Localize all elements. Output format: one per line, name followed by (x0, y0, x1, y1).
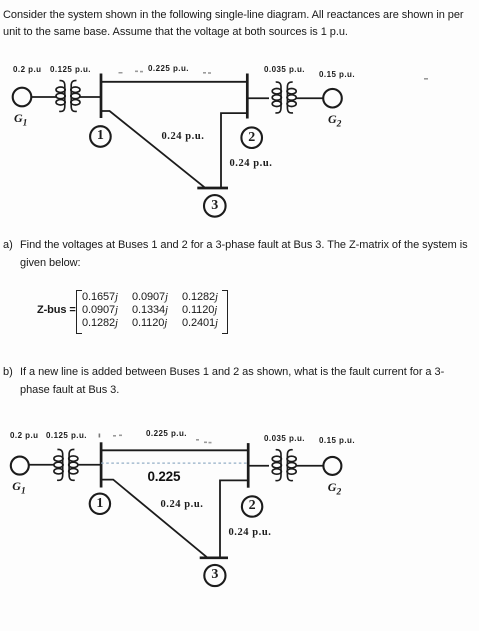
bus number 3 (204, 198, 225, 214)
label 0.035 p.u. (T2 reactance) (264, 434, 305, 443)
wire line 2-3 (0.24) (220, 480, 248, 557)
bus number 2 (241, 130, 262, 146)
node circle bus 3 (204, 565, 225, 586)
bus number 1 (90, 128, 111, 144)
generator G1 (11, 457, 29, 475)
wire line 1-3 (0.24) (101, 480, 207, 558)
node circle bus 1 (90, 494, 110, 514)
wire line 1-3 (0.24) (101, 111, 205, 187)
bus 3 bar (197, 187, 228, 190)
label G2 (328, 480, 341, 497)
generator G1 (13, 88, 32, 107)
wire T1 to bus 1 (79, 96, 101, 98)
node circle bus 2 (242, 496, 262, 516)
generator G2 (323, 457, 341, 475)
label 0.24 p.u. (line 1-3) (161, 499, 204, 510)
label G2 (328, 112, 341, 129)
label G1 (14, 111, 27, 128)
transformer T2 (272, 82, 296, 113)
wire T2 to G2 (296, 465, 324, 467)
label G1 (12, 479, 25, 496)
label 0.24 p.u. (line 2-3) (230, 158, 273, 169)
bus 2 bar (247, 443, 250, 488)
paragraph b (3, 364, 13, 382)
wire line 1-2 (0.225) (101, 81, 247, 83)
bus number 3 (204, 567, 225, 583)
wire T1 to bus 1 (77, 464, 101, 466)
label 0.225 p.u. (line 1-2) (148, 64, 189, 73)
label 0.24 p.u. (line 1-3) (162, 131, 205, 142)
node circle bus 1 (90, 126, 111, 147)
label 0.125 p.u. (T1 reactance) (46, 431, 87, 440)
transformer T2 (272, 450, 296, 481)
label 0.15 p.u. (G2 reactance) (319, 436, 355, 445)
paragraph a (3, 237, 13, 255)
label 0.035 p.u. (T2 reactance) (264, 65, 305, 74)
transformer T1 (54, 449, 78, 480)
node circle bus 2 (241, 127, 262, 148)
label 0.225 (new line) (148, 469, 181, 484)
Z-bus matrix (37, 304, 76, 316)
wire G1 to T1 (29, 464, 54, 466)
bus number 2 (242, 498, 263, 514)
bus 2 bar (246, 74, 249, 119)
label 0.125 p.u. (T1 reactance) (50, 65, 91, 74)
wire G1 to T1 (32, 96, 58, 98)
label 0.24 p.u. (line 2-3) (229, 527, 272, 538)
wire bus 2 to T2 (248, 465, 269, 467)
wire line 1-2 (0.225 p.u.) (101, 449, 248, 451)
wire bus 2 to T2 (247, 97, 269, 99)
node circle bus 3 (204, 195, 226, 217)
bus 1 bar (100, 74, 103, 119)
intro paragraph (3, 7, 475, 42)
label 0.2 p.u (G1 reactance) (13, 65, 42, 74)
bus number 1 (89, 496, 110, 512)
wire new line 1-2 dashed (0.225) (101, 462, 248, 464)
wire line 2-3 (0.24) (221, 113, 247, 188)
bus 1 bar (100, 442, 103, 487)
label 0.15 p.u. (G2 reactance) (319, 70, 355, 79)
generator G2 (323, 89, 342, 108)
transformer T1 (56, 81, 80, 112)
label 0.2 p.u (G1 reactance) (10, 431, 39, 440)
bus 3 bar (200, 556, 228, 559)
wire T2 to G2 (296, 97, 323, 99)
label 0.225 p.u. (line 1-2) (146, 429, 187, 438)
